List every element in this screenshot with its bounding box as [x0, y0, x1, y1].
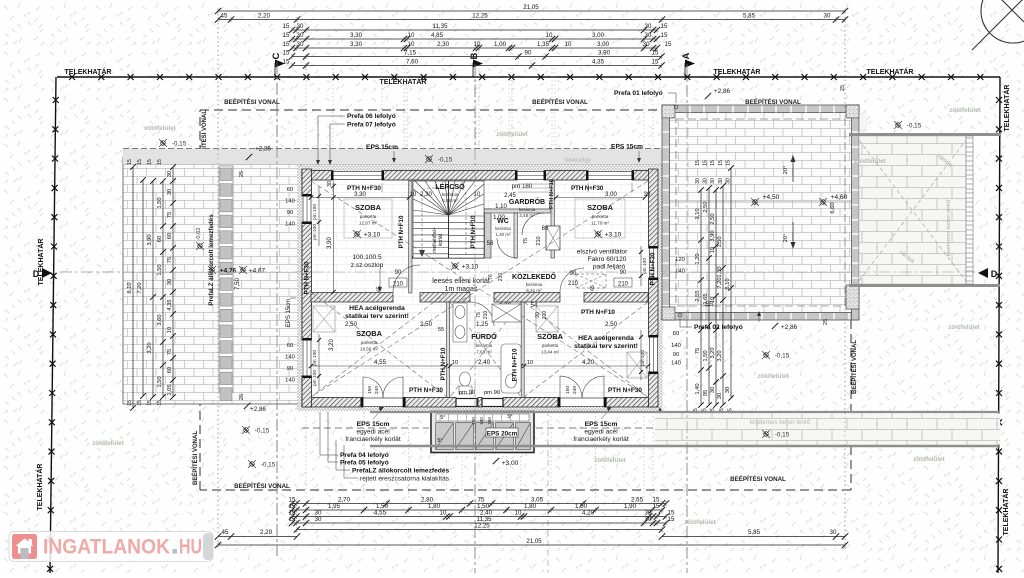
- svg-text:BEÉPÍTÉSI VONAL: BEÉPÍTÉSI VONAL: [532, 98, 588, 106]
- svg-text:zöldfelület: zöldfelület: [496, 131, 528, 138]
- svg-text:90: 90: [287, 366, 293, 372]
- svg-text:30: 30: [830, 529, 837, 536]
- window top wall left room: [331, 171, 384, 180]
- door dims mid wall right: [590, 270, 632, 291]
- svg-text:4,85: 4,85: [431, 32, 444, 39]
- partition wall wc right: [514, 213, 517, 258]
- svg-text:10: 10: [565, 41, 572, 48]
- svg-text:egyedi acél: egyedi acél: [356, 429, 390, 436]
- building setback line (BEEPITESI VONAL) dashed rectangle: [200, 110, 851, 490]
- room SZOBA bottom-left: [356, 329, 383, 352]
- svg-text:3,00: 3,00: [592, 32, 605, 39]
- svg-text:+3,10: +3,10: [605, 232, 622, 239]
- svg-text:kavicságy: kavicságy: [565, 158, 591, 164]
- svg-text:10: 10: [440, 510, 447, 517]
- svg-text:C: C: [271, 52, 282, 59]
- terrace paving right: [859, 136, 966, 284]
- svg-text:10: 10: [527, 360, 533, 366]
- watermark INGATLANOK.HU: [9, 532, 213, 562]
- svg-text:11,35: 11,35: [432, 23, 448, 30]
- svg-text:45: 45: [221, 13, 228, 20]
- svg-text:30: 30: [824, 13, 831, 20]
- Prefa 04/05 notes: [320, 412, 389, 467]
- svg-text:30: 30: [167, 189, 173, 195]
- partition wall furdo right: [521, 302, 524, 398]
- svg-text:TELEKHATÁR: TELEKHATÁR: [867, 67, 914, 76]
- svg-text:15: 15: [718, 160, 724, 166]
- section line D horizontal: [60, 271, 978, 273]
- zoldfelulet green area labels: [92, 107, 981, 526]
- svg-text:PTH N+F30: PTH N+F30: [304, 261, 311, 294]
- corridor wall below stair: [412, 256, 484, 259]
- room KOZLEKEDO: [512, 272, 557, 293]
- svg-text:BEÉPÍTÉSI VONAL: BEÉPÍTÉSI VONAL: [730, 475, 786, 483]
- svg-text:30: 30: [645, 516, 652, 523]
- svg-text:210: 210: [568, 281, 579, 287]
- witness lines bottom: [306, 412, 653, 500]
- svg-text:EPS 15cm: EPS 15cm: [585, 421, 618, 428]
- svg-text:140: 140: [675, 269, 685, 275]
- svg-text:zöldfelület: zöldfelület: [948, 324, 980, 331]
- svg-text:15: 15: [710, 160, 716, 166]
- right wall 60/140/90/140 dim column: [671, 331, 681, 367]
- svg-text:2,50: 2,50: [420, 321, 433, 328]
- svg-text:140: 140: [285, 199, 295, 205]
- svg-text:90: 90: [287, 210, 293, 216]
- svg-text:+4,50: +4,50: [763, 194, 780, 201]
- right wall 120/140 dim column: [675, 257, 685, 275]
- bed rect szoba1: [344, 199, 392, 238]
- annex walls precast: [662, 105, 859, 320]
- svg-text:60: 60: [167, 233, 173, 239]
- svg-text:HEA acélgerenda: HEA acélgerenda: [349, 305, 405, 312]
- svg-text:30: 30: [297, 23, 304, 30]
- top dimension chain row 7,60/4,35: [283, 59, 665, 69]
- svg-text:15: 15: [127, 400, 133, 406]
- svg-text:15: 15: [147, 400, 153, 406]
- svg-text:13,44 m²: 13,44 m²: [541, 350, 560, 355]
- interior jamb dim lines left: [317, 186, 643, 390]
- +3,00 level: [493, 458, 519, 467]
- svg-text:+4,76: +4,76: [220, 268, 237, 275]
- svg-text:25: 25: [239, 394, 245, 400]
- svg-text:10: 10: [167, 327, 173, 333]
- svg-text:TELEKHATÁR: TELEKHATÁR: [65, 67, 112, 76]
- ramp rail strip: [966, 136, 973, 284]
- svg-text:3,90: 3,90: [327, 237, 333, 249]
- bottom dimension chain row 2,70/2,80/75/3,05/2,65: [289, 497, 670, 507]
- section marker D left: [33, 268, 52, 279]
- svg-text:120: 120: [675, 257, 685, 263]
- svg-text:zöldfelület: zöldfelület: [949, 107, 981, 114]
- top dimension chain row 7,15/90/3,90: [283, 50, 665, 60]
- bottom dimension chain row 30/4,55/10/2,40/10/4,20/30: [289, 510, 675, 520]
- svg-text:kiselemes beton térkő: kiselemes beton térkő: [946, 200, 952, 256]
- svg-text:3,90: 3,90: [598, 50, 611, 57]
- window left wall upper: [303, 194, 312, 224]
- svg-text:15: 15: [695, 160, 701, 166]
- svg-text:25: 25: [239, 171, 245, 177]
- room FURDO: [471, 332, 497, 355]
- svg-text:4,20: 4,20: [582, 510, 595, 517]
- svg-text:8,10: 8,10: [725, 278, 731, 289]
- svg-text:PTH N+F30: PTH N+F30: [650, 252, 657, 285]
- svg-text:4,35: 4,35: [167, 299, 173, 310]
- svg-text:75: 75: [476, 312, 482, 318]
- svg-text:30: 30: [167, 171, 173, 177]
- building interior floor: [302, 169, 658, 407]
- svg-text:Prefa 01 lefolyó: Prefa 01 lefolyó: [614, 90, 663, 97]
- svg-text:kerámia: kerámia: [476, 343, 493, 348]
- svg-text:+3,10: +3,10: [462, 264, 479, 271]
- svg-text:+3,00: +3,00: [502, 460, 519, 467]
- svg-text:7,50: 7,50: [235, 278, 241, 290]
- svg-text:A: A: [681, 52, 692, 59]
- svg-text:PTH N+F10: PTH N+F10: [549, 179, 555, 209]
- svg-text:18,56 m²: 18,56 m²: [360, 347, 379, 352]
- svg-text:90: 90: [620, 270, 627, 276]
- svg-text:-0,02: -0,02: [196, 227, 202, 240]
- window top wall pm180: [515, 171, 546, 180]
- bathroom windows bottom wall: [456, 390, 503, 407]
- svg-text:3,30: 3,30: [350, 32, 363, 39]
- svg-text:15: 15: [157, 159, 163, 165]
- PTH labels bottom wall: [409, 387, 642, 394]
- bottom dimension chain row 21,05: [215, 538, 848, 548]
- svg-text:10: 10: [546, 32, 553, 39]
- window right wall upper: [649, 246, 658, 280]
- svg-text:-0,15: -0,15: [775, 353, 790, 360]
- svg-text:HEA acélgerenda: HEA acélgerenda: [578, 335, 634, 342]
- svg-text:3,60: 3,60: [157, 314, 163, 325]
- svg-text:franciaerkély korlát: franciaerkély korlát: [573, 436, 629, 443]
- svg-text:2,30: 2,30: [437, 41, 450, 48]
- window dims left wall lower: [285, 343, 295, 384]
- partition wall stair right: [485, 209, 492, 258]
- svg-text:1,50: 1,50: [703, 350, 709, 361]
- svg-text:TELEKHATÁR: TELEKHATÁR: [714, 67, 761, 76]
- svg-text:15: 15: [283, 59, 290, 66]
- svg-text:75: 75: [167, 257, 173, 263]
- svg-text:KÖZLEKEDŐ: KÖZLEKEDŐ: [512, 272, 557, 281]
- annex corner columns: [662, 105, 859, 320]
- interior vertical dim szoba1: [327, 181, 336, 294]
- terrace edge lines: [849, 135, 1000, 286]
- svg-text:zöldfelület: zöldfelület: [684, 519, 716, 526]
- svg-text:EPS 20cm: EPS 20cm: [487, 431, 518, 438]
- svg-text:100: 100: [479, 417, 484, 425]
- svg-text:parketta: parketta: [542, 343, 559, 348]
- bathroom fixtures: [453, 303, 521, 394]
- svg-text:BEÉPÍTÉSI VONAL: BEÉPÍTÉSI VONAL: [234, 482, 290, 490]
- svg-text:3,00: 3,00: [597, 41, 610, 48]
- svg-text:PTH N+F10: PTH N+F10: [512, 348, 519, 381]
- svg-text:1,90: 1,90: [624, 503, 637, 510]
- svg-text:zöldfelület: zöldfelület: [92, 440, 124, 447]
- svg-text:15: 15: [661, 32, 668, 39]
- svg-text:65: 65: [590, 285, 596, 291]
- svg-text:4,35: 4,35: [592, 59, 605, 66]
- svg-text:210: 210: [542, 311, 548, 320]
- svg-text:2,40: 2,40: [478, 359, 491, 366]
- svg-text:pm 90: pm 90: [484, 390, 500, 396]
- svg-text:1,40: 1,40: [695, 383, 701, 394]
- svg-text:SZOBA: SZOBA: [587, 203, 614, 212]
- svg-text:kerámia: kerámia: [526, 282, 543, 287]
- svg-text:1,20: 1,20: [695, 253, 701, 264]
- svg-text:58: 58: [487, 241, 494, 247]
- svg-text:-0,15: -0,15: [438, 157, 453, 164]
- svg-text:zöldfelület: zöldfelület: [757, 373, 789, 380]
- svg-text:75: 75: [695, 348, 701, 354]
- svg-text:-0,15: -0,15: [775, 432, 790, 439]
- svg-text:30: 30: [644, 192, 651, 198]
- grid line x=218 dotted: [217, 14, 219, 546]
- svg-text:3,20: 3,20: [147, 342, 153, 353]
- svg-text:PTH N+F10: PTH N+F10: [470, 215, 477, 248]
- svg-text:EPS 15cm: EPS 15cm: [357, 421, 390, 428]
- svg-text:3,30: 3,30: [350, 41, 363, 48]
- ramp diagonals: [859, 140, 966, 281]
- svg-text:15: 15: [703, 160, 709, 166]
- Prefa 06/07 notes top: [316, 113, 396, 165]
- window right wall lower: [649, 335, 658, 374]
- svg-text:10: 10: [710, 247, 716, 253]
- svg-text:PTH N+F30: PTH N+F30: [608, 387, 642, 394]
- top window dim guides: [333, 183, 632, 192]
- svg-text:90: 90: [673, 352, 679, 358]
- top dimension chain row 15/30/11,35/30/15: [283, 23, 668, 33]
- svg-text:3,30: 3,30: [354, 192, 366, 198]
- svg-text:30: 30: [645, 32, 652, 39]
- svg-text:30: 30: [718, 178, 724, 184]
- annex roof interior: [662, 105, 859, 320]
- bottom dimension chain row 12,25: [294, 523, 665, 533]
- exterior wall right: [649, 169, 659, 407]
- property boundary line top (TELEKHATAR): [57, 74, 1000, 80]
- svg-text:5,85: 5,85: [748, 529, 761, 536]
- +2,86 marks left roof: [239, 146, 271, 414]
- EPS 15cm note left: [345, 407, 401, 443]
- svg-text:30: 30: [717, 393, 723, 399]
- svg-text:pm 100: pm 100: [642, 258, 648, 274]
- door arcs: [393, 213, 584, 326]
- svg-text:55: 55: [438, 327, 444, 333]
- HEA steel beam note left: [345, 305, 409, 328]
- door dims kozlekedo: [488, 271, 579, 287]
- svg-text:60: 60: [287, 187, 293, 193]
- svg-text:15: 15: [283, 23, 290, 30]
- room SZOBA bottom-right: [537, 332, 564, 355]
- svg-text:15: 15: [283, 32, 290, 39]
- annex ridge line with level marks: [669, 194, 852, 214]
- svg-text:INGATLANOK: INGATLANOK: [43, 536, 170, 559]
- top dimension chain row 3,30/10/2,30/10/1,00/1,35/10/3,00: [283, 41, 672, 51]
- ramp labels: [898, 154, 954, 266]
- svg-text:PTH N+F10: PTH N+F10: [581, 309, 615, 316]
- svg-text:+3,10: +3,10: [364, 232, 381, 239]
- svg-text:TELEKHATÁR: TELEKHATÁR: [380, 77, 427, 86]
- svg-text:15: 15: [665, 41, 672, 48]
- svg-text:25: 25: [823, 319, 829, 325]
- top eave band (EPS 15cm): [123, 149, 662, 165]
- svg-text:PrefaLZ állókorcolt lemezfedés: PrefaLZ állókorcolt lemezfedés: [208, 214, 215, 306]
- svg-text:3,20: 3,20: [717, 350, 723, 361]
- svg-text:10: 10: [410, 192, 417, 198]
- svg-text:15: 15: [283, 50, 290, 57]
- svg-text:88: 88: [542, 226, 549, 232]
- svg-text:4,48 m²: 4,48 m²: [519, 213, 535, 218]
- french door bottom-right with swing: [558, 376, 607, 407]
- svg-text:EPS 15cm: EPS 15cm: [611, 144, 643, 151]
- svg-text:+4,67: +4,67: [249, 268, 266, 275]
- svg-text:15: 15: [661, 23, 668, 30]
- svg-text:B: B: [469, 52, 480, 59]
- ventilator note: [577, 249, 628, 271]
- svg-text:30: 30: [725, 387, 731, 393]
- svg-text:2,50: 2,50: [605, 321, 618, 328]
- svg-text:zöldfelület: zöldfelület: [594, 457, 626, 464]
- svg-text:2,45: 2,45: [504, 193, 516, 199]
- room WC: [495, 218, 511, 237]
- top dimension chain row 21,05: [215, 4, 848, 14]
- svg-text:PrefaLZ állókorcolt lemezfedés: PrefaLZ állókorcolt lemezfedés: [352, 468, 449, 475]
- section marker D right: [978, 268, 998, 279]
- svg-text:10: 10: [408, 32, 415, 39]
- svg-text:2,50: 2,50: [345, 321, 358, 328]
- svg-text:210: 210: [618, 282, 629, 288]
- svg-text:90: 90: [525, 50, 532, 57]
- svg-text:15: 15: [147, 159, 153, 165]
- stair level mark: [451, 262, 479, 271]
- EPS insulation band around building: [298, 166, 663, 412]
- svg-text:7,68 m²: 7,68 m²: [476, 350, 492, 355]
- roof projection diagonals: [311, 181, 648, 397]
- svg-text:2,50: 2,50: [710, 213, 716, 224]
- svg-text:1,10: 1,10: [495, 204, 507, 210]
- svg-text:15: 15: [652, 50, 659, 57]
- svg-text:150: 150: [565, 386, 571, 394]
- svg-text:-0,15: -0,15: [907, 123, 922, 130]
- bed rect szoba2: [575, 199, 625, 238]
- window top wall right room: [586, 171, 634, 180]
- svg-text:21,05: 21,05: [523, 4, 539, 11]
- section line B vertical: [474, 64, 476, 573]
- exterior wall left: [302, 169, 312, 407]
- left roof plane (PrefaLZ standing seam roof): [123, 157, 301, 404]
- dim 3,30 + PTH top-left: [309, 185, 417, 200]
- svg-text:parketta: parketta: [361, 340, 378, 345]
- svg-text:76: 76: [488, 274, 494, 280]
- level markers -0,15: [0, 0, 1, 1]
- property boundary line right: [996, 77, 1002, 573]
- svg-text:65: 65: [377, 286, 383, 292]
- svg-text:240: 240: [374, 386, 380, 394]
- svg-text:-0,15: -0,15: [172, 141, 187, 148]
- svg-text:15: 15: [653, 503, 660, 510]
- svg-text:Prefa 04 lefolyó: Prefa 04 lefolyó: [340, 452, 389, 459]
- svg-text:2,20: 2,20: [260, 529, 273, 536]
- svg-text:kerámia: kerámia: [519, 207, 536, 212]
- room SZOBA top-left: [353, 203, 382, 239]
- svg-text:30: 30: [703, 178, 709, 184]
- svg-text:SZOBA: SZOBA: [355, 203, 382, 212]
- svg-text:z.sz.oszlop: z.sz.oszlop: [351, 262, 384, 269]
- svg-text:pm 100: pm 100: [312, 224, 318, 240]
- section line A vertical: [686, 64, 688, 573]
- svg-text:Prefa 06 lefolyó: Prefa 06 lefolyó: [347, 113, 396, 120]
- balcony panels with diagonals: [436, 423, 531, 450]
- svg-text:10: 10: [709, 301, 715, 307]
- svg-text:7,20: 7,20: [717, 277, 723, 288]
- grid line x=845 dotted: [844, 12, 846, 552]
- svg-text:30: 30: [315, 516, 322, 523]
- svg-text:+2,86: +2,86: [714, 88, 731, 95]
- room GARDROB: [509, 197, 545, 218]
- svg-text:100.100.5: 100.100.5: [352, 254, 382, 261]
- svg-text:2,30: 2,30: [420, 192, 432, 198]
- svg-text:1,80: 1,80: [524, 503, 537, 510]
- svg-text:BEÉPÍTÉSI VONAL: BEÉPÍTÉSI VONAL: [224, 98, 280, 106]
- svg-text:12,25: 12,25: [474, 523, 490, 530]
- svg-text:PTH N+F10: PTH N+F10: [398, 215, 405, 248]
- svg-text:elszívó ventillátor: elszívó ventillátor: [577, 249, 628, 256]
- svg-text:150: 150: [487, 417, 492, 425]
- svg-text:75: 75: [167, 212, 173, 218]
- svg-text:15: 15: [157, 400, 163, 406]
- chimney shaft with X: [546, 226, 560, 250]
- left vertical dimension chains: [127, 164, 176, 411]
- svg-text:BEÉPÍTÉSI VONAL: BEÉPÍTÉSI VONAL: [850, 340, 858, 394]
- svg-text:1,50: 1,50: [717, 236, 723, 247]
- svg-text:30: 30: [695, 178, 701, 184]
- svg-text:D: D: [991, 269, 998, 279]
- left chain small 15 labels: [127, 159, 163, 406]
- svg-text:1m magas: 1m magas: [445, 286, 478, 293]
- svg-text:30: 30: [167, 279, 173, 285]
- svg-text:Prefa 07 lefolyó: Prefa 07 lefolyó: [347, 122, 396, 129]
- svg-text:10: 10: [452, 360, 458, 366]
- svg-text:korlát: korlát: [438, 233, 444, 246]
- svg-text:8,10: 8,10: [127, 282, 133, 293]
- svg-text:4,55: 4,55: [374, 510, 387, 517]
- svg-text:+2,86: +2,86: [255, 146, 271, 153]
- svg-text:kerámia: kerámia: [442, 192, 459, 197]
- partition wall gardrob right: [551, 181, 554, 258]
- svg-text:25: 25: [840, 85, 846, 91]
- svg-text:6,31 m²: 6,31 m²: [526, 288, 542, 293]
- svg-text:15: 15: [283, 41, 290, 48]
- svg-text:+2,86: +2,86: [250, 406, 266, 413]
- svg-text:12,25: 12,25: [472, 13, 488, 20]
- svg-text:75: 75: [167, 349, 173, 355]
- svg-text:4,20: 4,20: [582, 359, 595, 366]
- svg-text:PTH N+F30: PTH N+F30: [347, 185, 381, 192]
- svg-text:140: 140: [671, 343, 681, 349]
- svg-text:5°: 5°: [507, 414, 512, 420]
- svg-text:1,05: 1,05: [167, 384, 173, 395]
- svg-text:TELEKHATÁR: TELEKHATÁR: [1002, 85, 1011, 132]
- wardrobe crosses bottom rooms: [313, 306, 647, 378]
- BEEPITESI VONAL labels: [191, 98, 858, 490]
- roof gutter strip segmented: [219, 166, 233, 400]
- svg-text:EPS 15cm: EPS 15cm: [366, 144, 398, 151]
- svg-text:SZOBA: SZOBA: [356, 329, 383, 338]
- svg-text:1,50: 1,50: [157, 197, 163, 208]
- svg-text:10: 10: [474, 41, 481, 48]
- svg-text:30: 30: [710, 178, 716, 184]
- balcony canopy structure: [431, 412, 534, 453]
